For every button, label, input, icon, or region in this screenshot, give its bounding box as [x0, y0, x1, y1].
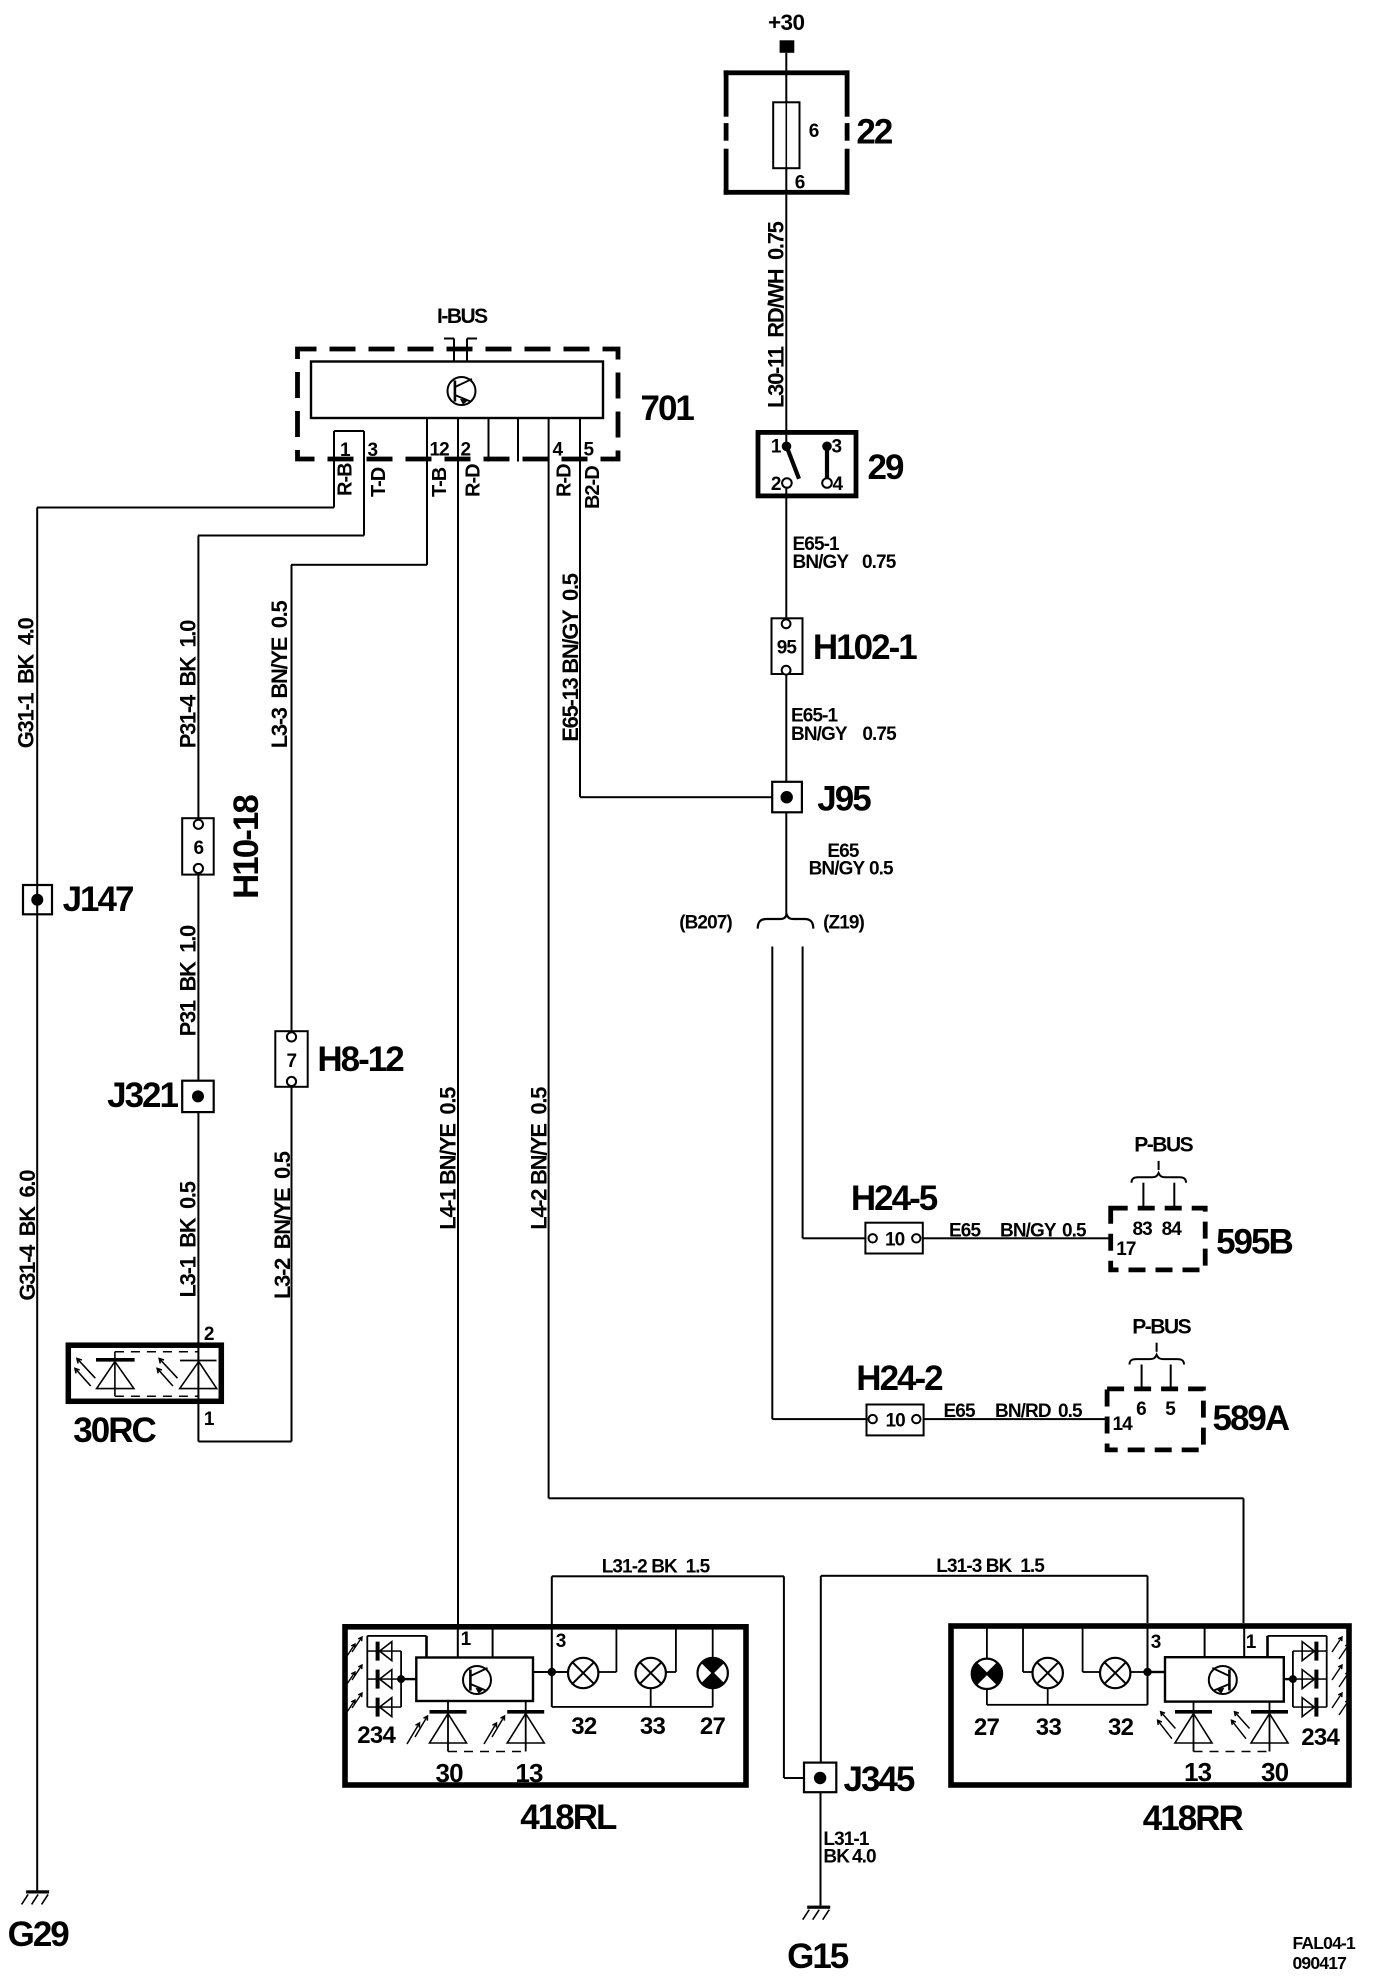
- svg-text:3: 3: [1151, 1632, 1161, 1653]
- wire through fuse 22: [785, 70, 787, 102]
- 418RL LED 2: [367, 1678, 401, 1680]
- 418RR LED 1: [1293, 1650, 1327, 1652]
- svg-text:418RL: 418RL: [520, 1798, 617, 1837]
- svg-text:BN/GY: BN/GY: [1000, 1221, 1057, 1242]
- 418RL pin 1 wire into driver: [457, 1627, 459, 1658]
- wire 701 pin 1 to left margin (R-B): [37, 507, 334, 509]
- 418RL lamp 33: [636, 1658, 666, 1688]
- svg-text:H102-1: H102-1: [813, 628, 917, 667]
- svg-text:234: 234: [357, 1722, 396, 1749]
- 701 pin 4 wire: [548, 418, 550, 1498]
- svg-text:J147: J147: [63, 880, 133, 919]
- lamp assembly 418RL box: [345, 1627, 746, 1785]
- 30RC right LED: [180, 1360, 217, 1362]
- fuse element F6 in box 22: [773, 102, 799, 168]
- svg-text:0.5: 0.5: [1058, 1401, 1083, 1422]
- 418RL LED 1: [367, 1650, 401, 1652]
- 418RL LED 1 arrows: [352, 1637, 362, 1652]
- svg-text:6: 6: [809, 121, 819, 142]
- 418RL LED array junction dot: [397, 1675, 405, 1683]
- svg-text:(B207): (B207): [679, 913, 732, 934]
- svg-text:95: 95: [777, 638, 798, 659]
- svg-text:L31-3 BK 1.5: L31-3 BK 1.5: [936, 1556, 1045, 1577]
- switch 29 pin 3 contact dot: [822, 442, 832, 452]
- P-BUS bus brace (589A): [1130, 1355, 1185, 1365]
- svg-text:595B: 595B: [1216, 1223, 1292, 1262]
- svg-text:30: 30: [436, 1758, 464, 1788]
- 418RR driver unit box: [1165, 1657, 1284, 1701]
- 418RL LED 3: [367, 1706, 401, 1708]
- svg-text:10: 10: [886, 1411, 906, 1432]
- svg-text:P31 BK 1.0: P31 BK 1.0: [175, 925, 200, 1036]
- 418RR diode 13: [1193, 1702, 1195, 1752]
- svg-text:L3-1 BK 0.5: L3-1 BK 0.5: [175, 1181, 200, 1297]
- 418RR diode dashed link: [1194, 1751, 1270, 1753]
- svg-text:(Z19): (Z19): [823, 913, 864, 934]
- 418RR LED 2 arrows: [1332, 1665, 1342, 1680]
- 701 pin 12 wire stub: [426, 418, 428, 565]
- junction J95 box with dot: [772, 782, 802, 813]
- P-BUS stub wires into 595B pins 83 84: [1142, 1183, 1144, 1208]
- svg-text:L31-2 BK 1.5: L31-2 BK 1.5: [602, 1557, 711, 1578]
- 418RL lamp 32: [568, 1658, 598, 1688]
- svg-text:H10-18: H10-18: [227, 795, 266, 899]
- 30RC left LED: [114, 1352, 116, 1397]
- svg-text:BN/RD: BN/RD: [995, 1401, 1051, 1422]
- svg-text:2: 2: [461, 440, 471, 461]
- svg-text:14: 14: [1113, 1414, 1134, 1435]
- switch 29 pin 2 contact circle: [782, 478, 792, 488]
- svg-text:H24-5: H24-5: [851, 1179, 938, 1218]
- 418RL diode 13 arrows: [492, 1716, 505, 1737]
- switch 29 contact bar 3-4 (closed): [825, 446, 829, 478]
- 418RR lamp 33: [1033, 1658, 1063, 1688]
- svg-text:G31-1 BK 4.0: G31-1 BK 4.0: [14, 617, 39, 748]
- 418RR lamp 32: [1100, 1658, 1130, 1688]
- 418RR LED array junction dot: [1289, 1675, 1297, 1683]
- transistor symbol in 418RL: [463, 1666, 491, 1694]
- 701 pin 2 wire: [457, 418, 459, 1624]
- svg-text:12: 12: [430, 440, 450, 461]
- junction J321 box with dot: [182, 1081, 214, 1112]
- 418RL driver stub wire: [492, 1627, 494, 1658]
- svg-text:E65: E65: [944, 1401, 976, 1422]
- svg-text:1: 1: [461, 1629, 472, 1650]
- switch 29 pin 1 contact dot: [782, 442, 792, 452]
- 418RR diode 30 arrows: [1235, 1712, 1250, 1729]
- svg-text:83: 83: [1133, 1219, 1153, 1240]
- 418RR LED 3: [1293, 1706, 1327, 1708]
- svg-text:J95: J95: [817, 780, 871, 819]
- 418RL driver unit box: [416, 1658, 533, 1702]
- svg-text:T-B: T-B: [429, 467, 451, 497]
- 418RL LED array bus: [366, 1636, 368, 1707]
- 701 pin 1/3 connector outline: [334, 430, 364, 432]
- svg-text:29: 29: [868, 448, 904, 487]
- switch 29 box: [758, 432, 856, 496]
- svg-text:2: 2: [771, 474, 781, 495]
- svg-text:6: 6: [1136, 1399, 1146, 1420]
- svg-text:418RR: 418RR: [1143, 1799, 1244, 1838]
- wire 701 pin 12 to x=291 (T-B): [291, 564, 427, 566]
- 418RL pin 3 wire and junction: [551, 1627, 553, 1707]
- lamp unit 30RC box: [68, 1345, 221, 1401]
- svg-text:+30: +30: [768, 10, 804, 35]
- svg-text:L30-11 RD/WH 0.75: L30-11 RD/WH 0.75: [763, 221, 788, 408]
- svg-text:13: 13: [1184, 1757, 1212, 1787]
- svg-text:4.0: 4.0: [852, 1847, 876, 1868]
- connector H8-12 box, pin 7: [275, 1031, 307, 1087]
- svg-text:BN/GY: BN/GY: [791, 724, 848, 745]
- svg-text:5: 5: [1165, 1399, 1176, 1420]
- svg-text:33: 33: [1036, 1714, 1062, 1741]
- 418RR lamp bottom bus: [987, 1704, 1148, 1706]
- svg-text:10: 10: [885, 1230, 905, 1251]
- svg-text:FAL04-1: FAL04-1: [1293, 1933, 1357, 1953]
- svg-text:R-D: R-D: [554, 464, 576, 497]
- svg-text:6: 6: [194, 838, 204, 859]
- wire H24-5 to 595B, E65 BN/GY 0.5: [923, 1237, 1111, 1239]
- connector H24-5 box, pin 10: [865, 1223, 922, 1254]
- svg-text:7: 7: [287, 1051, 297, 1072]
- ground G29 symbol: [26, 1890, 49, 1893]
- I-BUS connection stubs on 701: [453, 339, 455, 362]
- wire L31-1 BK 4.0 to ground: [820, 1792, 822, 1906]
- svg-text:G15: G15: [787, 1937, 849, 1976]
- svg-text:I-BUS: I-BUS: [437, 305, 488, 328]
- svg-text:L4-1 BN/YE 0.5: L4-1 BN/YE 0.5: [436, 1087, 461, 1230]
- branch wire to H24-5 (right): [802, 947, 804, 1239]
- svg-text:3: 3: [556, 1631, 566, 1652]
- svg-text:4: 4: [553, 440, 564, 461]
- wire 30RC pin 1 to L3-2: [198, 1441, 291, 1443]
- fuse box 22 dashed enclosure: [724, 70, 850, 75]
- svg-text:22: 22: [856, 113, 892, 152]
- node +30 terminal square: [780, 40, 795, 53]
- P-BUS stub wires into 589A pins 6 5: [1141, 1365, 1143, 1389]
- wire +30 square to fuse box 22: [785, 53, 787, 71]
- 30RC mechanical dashed link: [115, 1351, 199, 1353]
- svg-text:27: 27: [700, 1713, 726, 1740]
- wire 701 pin 5 to J95 (B2-D): [579, 418, 581, 797]
- svg-text:234: 234: [1301, 1724, 1340, 1751]
- transistor symbol in 701: [448, 377, 476, 405]
- svg-text:1: 1: [204, 1409, 215, 1430]
- wire L3-1 BK 0.5: [197, 1112, 199, 1343]
- 30RC left LED arrows: [77, 1359, 95, 1379]
- svg-text:701: 701: [641, 389, 695, 428]
- svg-text:3: 3: [368, 440, 378, 461]
- module 701 inner unit box: [311, 362, 603, 419]
- 418RL diode 13: [525, 1701, 527, 1752]
- wire G31-1 BK 4.0 down left margin: [36, 508, 38, 1892]
- svg-text:32: 32: [1108, 1714, 1134, 1741]
- svg-text:G31-4 BK 6.0: G31-4 BK 6.0: [15, 1170, 40, 1301]
- junction J345 box with dot: [804, 1763, 836, 1793]
- wire L31-3 BK 1.5: [821, 1575, 1148, 1577]
- svg-text:P-BUS: P-BUS: [1132, 1316, 1191, 1339]
- 30RC right LED arrows: [159, 1359, 177, 1379]
- 418RR pin 3 wire and junction: [1147, 1626, 1149, 1705]
- 418RR LED 1 arrows: [1332, 1637, 1342, 1652]
- svg-text:84: 84: [1162, 1219, 1183, 1240]
- 418RR LED 2: [1293, 1678, 1327, 1680]
- 418RR LED 3 arrows: [1332, 1693, 1342, 1708]
- svg-text:17: 17: [1116, 1239, 1136, 1260]
- 418RR driver stub wire: [1204, 1626, 1206, 1657]
- svg-text:R-B: R-B: [335, 463, 357, 496]
- svg-text:BK: BK: [823, 1847, 850, 1868]
- wire H102-1 to junction J95: [785, 674, 787, 782]
- svg-text:1: 1: [771, 437, 782, 458]
- svg-text:H24-2: H24-2: [856, 1359, 943, 1398]
- 418RL lamp bottom bus: [552, 1706, 713, 1708]
- junction J147 box with dot: [23, 885, 52, 914]
- lamp assembly 418RR box: [951, 1626, 1349, 1785]
- svg-text:32: 32: [571, 1713, 597, 1740]
- svg-text:0.5: 0.5: [1062, 1221, 1087, 1242]
- svg-text:090417: 090417: [1293, 1953, 1347, 1973]
- wire L31-2 BK 1.5: [551, 1576, 553, 1624]
- wire J95 to splice, E65 BN/GY 0.5: [785, 812, 787, 917]
- svg-text:L3-3 BN/YE 0.5: L3-3 BN/YE 0.5: [267, 601, 292, 749]
- 418RR LED array bus: [1326, 1636, 1328, 1707]
- svg-text:1: 1: [340, 440, 351, 461]
- wire fuse 22 to switch 29, L30-11 RD/WH 0.75: [785, 195, 787, 430]
- 418RL LED 2 arrows: [352, 1665, 362, 1680]
- connector H102-1 box, pin 95: [772, 618, 803, 674]
- svg-text:0.5: 0.5: [869, 859, 894, 880]
- svg-text:J345: J345: [844, 1760, 915, 1799]
- svg-text:E65-13 BN/GY 0.5: E65-13 BN/GY 0.5: [558, 573, 583, 742]
- svg-text:L3-2 BN/YE 0.5: L3-2 BN/YE 0.5: [270, 1151, 295, 1299]
- wire H24-2 to 589A, E65 BN/RD 0.5: [924, 1418, 1108, 1420]
- svg-text:589A: 589A: [1213, 1399, 1290, 1438]
- 418RL diode dashed link: [448, 1751, 526, 1753]
- svg-text:0.75: 0.75: [862, 552, 897, 573]
- svg-text:J321: J321: [107, 1076, 178, 1115]
- svg-text:30RC: 30RC: [73, 1411, 156, 1450]
- ground G15 symbol: [807, 1906, 830, 1909]
- 701 unnumbered stubs: [488, 418, 490, 462]
- svg-text:E65: E65: [949, 1221, 981, 1242]
- transistor symbol in 418RR: [1209, 1666, 1237, 1694]
- wire switch 29 to connector H102-1: [785, 488, 787, 619]
- connector H10-18 box, pin 6: [182, 818, 214, 874]
- svg-text:4: 4: [833, 474, 844, 495]
- 418RL lamp 27 (two-filament): [702, 1658, 723, 1673]
- 418RR diode 13 arrows: [1161, 1712, 1176, 1729]
- 30RC internal pin wire: [197, 1343, 199, 1404]
- wire P31 BK 1.0: [197, 875, 199, 1081]
- connector H24-2 box, pin 10: [867, 1405, 924, 1436]
- svg-text:30: 30: [1261, 1757, 1289, 1787]
- svg-text:2: 2: [204, 1324, 214, 1345]
- wire L3-2 BN/YE 0.5: [291, 1087, 293, 1442]
- svg-text:27: 27: [974, 1714, 1000, 1741]
- 418RL LED 3 arrows: [352, 1693, 362, 1708]
- inline connector splice (B207)/(Z19): [758, 915, 814, 929]
- svg-text:33: 33: [640, 1713, 666, 1740]
- svg-text:3: 3: [832, 437, 842, 458]
- svg-text:L4-2 BN/YE 0.5: L4-2 BN/YE 0.5: [527, 1087, 552, 1230]
- wire 701 pin 3 to x=198 (T-D): [198, 535, 364, 537]
- 418RL diode 30: [447, 1701, 449, 1752]
- svg-text:P31-4 BK 1.0: P31-4 BK 1.0: [175, 620, 200, 748]
- module 701 dashed box: [298, 349, 619, 459]
- 418RR pin 1 wire into driver: [1243, 1626, 1245, 1657]
- svg-text:H8-12: H8-12: [317, 1040, 404, 1079]
- branch wire to H24-2 (left): [771, 947, 773, 1420]
- svg-text:BN/GY: BN/GY: [809, 859, 866, 880]
- svg-text:G29: G29: [8, 1915, 70, 1954]
- switch 29 wire into pin 1: [785, 432, 787, 446]
- svg-text:5: 5: [584, 440, 595, 461]
- wire L4-2 horizontal run to 418RR pin 1: [549, 1497, 1244, 1499]
- wire P31-4 BK 1.0: [197, 536, 199, 819]
- module 595B dashed box: [1111, 1208, 1206, 1270]
- switch 29 lever 1-2 (open): [787, 446, 800, 479]
- svg-text:B2-D: B2-D: [582, 466, 604, 509]
- wire L3-3 BN/YE 0.5: [291, 565, 293, 1031]
- svg-text:6: 6: [795, 173, 805, 194]
- 418RL diode 30 arrows: [415, 1716, 428, 1737]
- P-BUS bus brace (595B): [1132, 1173, 1187, 1183]
- svg-text:0.75: 0.75: [862, 724, 897, 745]
- svg-text:R-D: R-D: [463, 464, 485, 497]
- svg-text:P-BUS: P-BUS: [1134, 1134, 1193, 1157]
- svg-text:1: 1: [1246, 1632, 1257, 1653]
- module 589A dashed box: [1107, 1389, 1203, 1450]
- svg-text:BN/GY: BN/GY: [793, 552, 850, 573]
- svg-text:T-D: T-D: [368, 467, 390, 497]
- switch 29 pin 4 contact circle: [822, 478, 832, 488]
- svg-text:13: 13: [515, 1758, 543, 1788]
- 418RR lamp 27 (two-filament): [972, 1663, 987, 1684]
- 418RR diode 30: [1269, 1702, 1271, 1752]
